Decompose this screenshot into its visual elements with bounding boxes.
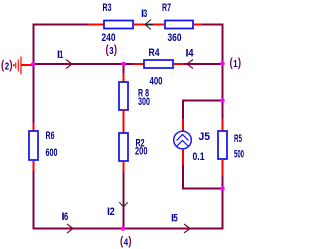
wire R8 top lead <box>123 73 125 82</box>
node J bottom junction dot <box>220 186 225 191</box>
svg-text:R5: R5 <box>234 133 242 145</box>
current arrow I4 <box>187 60 193 69</box>
current arrow I1 <box>66 60 72 69</box>
resistor R5 <box>218 131 227 159</box>
resistor R2 <box>119 133 128 161</box>
wire R4 to node 1 <box>184 63 223 65</box>
svg-text:360: 360 <box>168 32 182 44</box>
svg-text:240: 240 <box>102 32 116 44</box>
svg-text:): ) <box>9 60 12 72</box>
wire J5 branch top <box>183 101 223 120</box>
node 1 junction dot <box>220 61 225 66</box>
svg-text:500: 500 <box>234 149 244 161</box>
current arrow I2 <box>119 202 127 207</box>
node J top junction dot <box>220 98 225 103</box>
wire R4 right lead <box>174 63 184 65</box>
wire R3 left lead <box>88 24 104 26</box>
wire J5 branch bottom <box>183 165 223 189</box>
svg-text:600: 600 <box>46 147 58 159</box>
svg-text:): ) <box>114 45 117 57</box>
wire node3 down to R8 <box>123 64 125 73</box>
current source J5 <box>174 131 192 149</box>
wire R7 right lead <box>194 24 202 26</box>
node 3 label <box>106 45 118 57</box>
resistor R7 <box>165 21 193 29</box>
resistor R4 <box>144 60 173 68</box>
node 3 junction dot <box>121 62 126 67</box>
svg-text:5: 5 <box>174 213 178 225</box>
svg-text:R6: R6 <box>46 130 55 142</box>
wire R2 bottom lead <box>123 161 125 172</box>
wire node1 down to J junction <box>222 64 224 101</box>
node 2 junction dot <box>31 62 36 67</box>
svg-text:): ) <box>238 58 241 70</box>
svg-text:R4: R4 <box>149 47 161 59</box>
wire J5 bottom lead <box>182 149 184 165</box>
wire R6 bottom lead <box>33 161 35 171</box>
svg-text:J5: J5 <box>199 131 211 143</box>
svg-text:1: 1 <box>59 49 63 61</box>
wire R5 bottom lead <box>222 159 224 176</box>
svg-text:6: 6 <box>64 211 68 223</box>
wire left bottom corner <box>34 171 124 229</box>
wire J junction to R5 <box>222 101 224 120</box>
svg-text:4: 4 <box>188 48 194 60</box>
current arrow I6 <box>67 224 73 233</box>
svg-text:200: 200 <box>135 146 148 158</box>
ground symbol at node 2 <box>13 57 33 75</box>
wire top right corner down to node 1 <box>202 25 223 65</box>
wire bottom rail node4 to right corner <box>124 189 223 229</box>
node 4 junction dot <box>121 226 126 231</box>
node 2 label <box>1 60 13 72</box>
wire R5 to bottom junction <box>222 176 224 189</box>
wire R5 top lead <box>222 119 224 131</box>
wire R6 top lead <box>33 123 35 131</box>
wire between R3 and R7 <box>134 24 164 26</box>
wire node2 down to R6 <box>33 64 35 123</box>
wire node3 to R4 <box>124 63 134 65</box>
svg-text:300: 300 <box>138 96 150 108</box>
current arrow I5 <box>184 224 190 233</box>
wire R4 left lead <box>133 63 144 65</box>
svg-text:400: 400 <box>150 76 163 88</box>
svg-text:): ) <box>128 236 131 248</box>
svg-text:2: 2 <box>110 206 115 218</box>
svg-text:R3: R3 <box>103 2 112 14</box>
resistor R6 <box>29 131 38 160</box>
wire R2 down to node 4 <box>123 172 125 229</box>
svg-text:3: 3 <box>143 8 147 20</box>
resistor R3 <box>104 21 133 29</box>
svg-text:R7: R7 <box>162 2 171 14</box>
svg-text:0.1: 0.1 <box>193 151 205 163</box>
wire J5 top lead <box>182 119 184 132</box>
current arrow I3 <box>145 20 153 30</box>
node 4 label <box>120 236 132 248</box>
resistor R8 <box>119 82 128 110</box>
wire top rail from left corner to R3 <box>34 25 89 65</box>
wire between R8 and R2 <box>123 110 125 133</box>
wire mid rail node2 to node3 <box>34 63 124 65</box>
node 1 label <box>230 58 242 70</box>
